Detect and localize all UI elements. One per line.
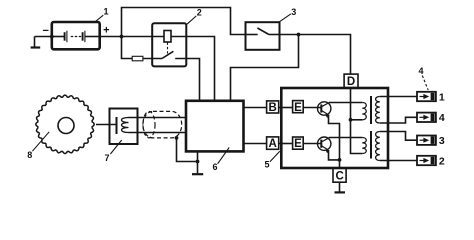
label 4 pointer [422,76,428,91]
resistor R1 [132,56,143,61]
battery B1 [52,22,100,49]
node junction after switch 3 [297,33,301,37]
label 8 [27,150,32,160]
label plug 2 [439,155,445,167]
wire B to E1 [279,107,293,109]
shielded cable sheath [143,111,182,137]
wire Q2 collector to primary 2 [329,137,363,139]
T1 core [370,96,372,124]
label 3 pointer [279,14,291,22]
svg-text:7: 7 [104,153,109,163]
control unit 6 [186,101,244,152]
wire battery plus to relay coil [100,36,164,38]
svg-text:3: 3 [439,135,445,147]
ground (terminal C) [335,191,346,193]
wire relay contact out to control unit top [175,59,199,101]
wire gear to sensor [96,124,117,126]
wire junction down-left to control unit top [231,35,299,101]
svg-text:1: 1 [103,7,108,17]
ignition coil T1 primary [362,103,366,120]
switch S1 [246,22,280,50]
label plug 1 [439,91,445,103]
wire secondary 2 to plug 2 [380,160,417,162]
wire secondary 1 to plug 1 [380,96,417,98]
node battery minus terminal [50,35,54,39]
wire Q1 collector to primary 1 [329,102,363,104]
wire top feed to switch 3 [122,8,246,37]
svg-text:E: E [294,138,302,150]
gear hole [58,118,74,134]
wire battery minus to ground [35,36,52,38]
wire Q2 emitter to common [329,150,340,160]
wire switch 3 to D input [280,35,351,75]
terminal B [267,101,279,114]
gear wheel 8 [36,95,94,153]
svg-text:B: B [269,102,277,114]
node junction above battery plus [120,35,124,39]
svg-text:D: D [347,76,355,88]
svg-text:5: 5 [264,160,269,170]
wire sensor pair bottom [129,132,187,134]
block E1 [293,101,304,114]
label 1 [103,7,108,17]
node D bus to primary 1 junction [349,118,353,122]
wire control unit ground pin [197,151,199,173]
node shield ground tap [175,136,179,140]
label 6 [212,162,217,172]
wire sensor pair top [129,117,187,119]
wire primary 1 bottom to D bus [351,119,363,121]
wire Q1 emitter down to common [329,115,340,160]
sensor 7 [110,109,138,145]
ignition coil T1 secondary [376,97,380,124]
label plug 3 [439,135,445,147]
terminal A [267,137,279,150]
wire junction down to resistor branch [122,37,133,59]
svg-text:A: A [269,138,277,150]
svg-text:1: 1 [439,91,445,103]
spark plug connector 3 [417,136,436,145]
label 2 pointer [187,16,196,24]
wire secondary 2 to plug 3 [380,132,417,141]
terminal C [333,168,346,182]
node shield to ground pin junction [196,160,200,164]
svg-text:2: 2 [197,7,202,17]
wire shield to ground [177,138,198,162]
ignition coil T2 secondary [376,132,380,161]
svg-text:+: + [103,24,109,36]
wire A to E2 [279,143,293,145]
wire relay coil out to control unit top [171,37,215,101]
ground (control unit) [192,173,203,175]
block E2 [293,137,304,150]
node emitter common junction [338,158,342,162]
wire control unit to B [244,107,267,109]
wire E1 to Q1 base [303,107,321,109]
svg-text:2: 2 [439,155,445,167]
svg-text:4: 4 [439,112,445,124]
svg-text:C: C [335,170,343,182]
label 5 pointer [270,151,280,162]
minus label [42,25,48,37]
wire control unit to A [244,143,267,145]
label 7 pointer [110,140,121,154]
wire secondary 1 to plug 4 [380,117,417,123]
svg-text:6: 6 [212,162,217,172]
transistor Q1 [318,102,331,118]
spark plug connector 4 [417,113,436,122]
svg-text:−: − [42,25,48,37]
wire common emitter to C [339,160,341,168]
svg-text:E: E [294,102,302,114]
label 6 pointer [218,148,230,164]
spark plug connector 2 [417,156,436,165]
plus label [103,24,109,36]
ignition coil T2 primary [362,138,366,154]
terminal D [344,74,358,88]
T2 core [370,131,372,159]
relay K1 [152,23,186,66]
label 7 [104,153,109,163]
wire E2 to Q2 base [303,143,321,145]
ignition module 5 [281,88,388,168]
spark plug connector 1 [417,92,436,101]
label 8 pointer [32,132,49,151]
ground (battery) [31,37,41,48]
label 3 [291,7,296,17]
label 5 [264,160,269,170]
wire resistor to relay contact [143,58,162,60]
label 2 [197,7,202,17]
svg-text:8: 8 [27,150,32,160]
wire D bus down [351,88,363,154]
label 4 [418,66,423,76]
transistor Q2 [318,137,331,153]
svg-text:4: 4 [418,66,423,76]
label 1 pointer [95,15,104,22]
wire C to ground [339,182,341,191]
label plug 4 [439,112,445,124]
svg-text:3: 3 [291,7,296,17]
